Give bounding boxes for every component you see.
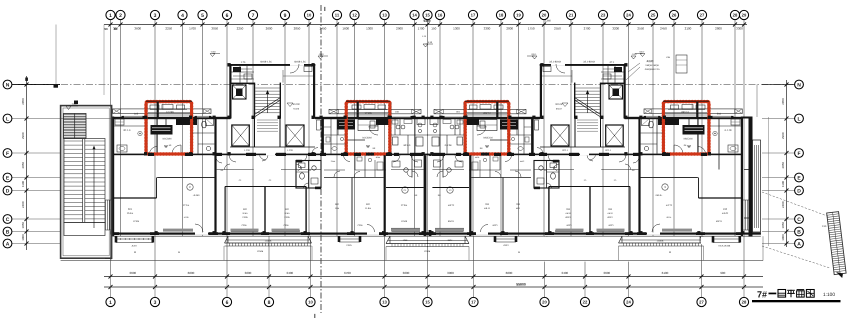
corridor doors (344, 155, 351, 162)
svg-text:R1 1.9: R1 1.9 (124, 129, 131, 132)
svg-text:-0.30: -0.30 (632, 53, 638, 56)
bay inner wall y83 (232, 83, 255, 84)
stair hall door (290, 64, 304, 66)
hall interior lines (282, 70, 284, 83)
corridor arcs extra (216, 157, 222, 163)
svg-text:2700: 2700 (584, 27, 591, 31)
vent shaft east (286, 125, 304, 146)
door arc unit1 hall (150, 147, 158, 155)
porch step lines box1 (148, 112, 190, 114)
svg-text:C: C (6, 217, 10, 223)
bath fixtures (332, 147, 337, 151)
svg-text:高低跨: 高低跨 (647, 60, 655, 63)
svg-text:2450: 2450 (660, 27, 667, 31)
mailbox block unit1 (151, 125, 173, 135)
svg-text:R/2: R/2 (243, 208, 247, 211)
unit1 room divider y125 (114, 125, 146, 127)
right grid bubbles N L F E D C B A (795, 80, 804, 248)
threshold dark block unit1 (176, 119, 197, 125)
top grid bubbles (106, 10, 749, 19)
kitchen bath extra fixtures (393, 137, 399, 145)
svg-text:B: B (797, 229, 801, 235)
fan symbol C (187, 184, 193, 190)
svg-text:17: 17 (471, 13, 476, 18)
unit1 window dim ticks (115, 238, 117, 240)
bath room walls unit1 (197, 118, 199, 154)
right end south wall (743, 233, 761, 235)
svg-text:1300: 1300 (366, 27, 373, 31)
mid room window bars (231, 229, 259, 232)
stair walls extension (254, 119, 256, 148)
svg-text:1700: 1700 (418, 27, 425, 31)
grid row leader lines L-A (11, 119, 795, 244)
svg-text:XM1B-1.5C: XM1B-1.5C (260, 61, 272, 64)
svg-text:29: 29 (742, 13, 747, 18)
living window band y117 mid (391, 117, 411, 119)
svg-text:2250: 2250 (165, 27, 172, 31)
right bay window sill (754, 145, 756, 228)
svg-text:6: 6 (226, 300, 229, 306)
vent shaft west (232, 125, 250, 146)
svg-text:C305: C305 (358, 224, 364, 227)
mid rooms divider x265 (264, 187, 265, 233)
top center level annotation (423, 44, 428, 47)
right margin aux lines (756, 85, 758, 118)
svg-text:JC3A: JC3A (131, 245, 137, 248)
svg-text:+0.050: +0.050 (193, 194, 201, 197)
stair bay east wall (313, 64, 315, 119)
ramp dashed leaders (762, 192, 830, 217)
svg-text:3050: 3050 (211, 27, 218, 31)
mid room left wall x225 (225, 187, 226, 233)
svg-text:2450: 2450 (320, 27, 327, 31)
window unit1 south (115, 236, 117, 242)
shaft wall x322 (321, 118, 324, 156)
mask mirrored right balcony (540, 237, 633, 262)
structural columns (144, 116, 147, 119)
svg-text:N: N (6, 82, 10, 88)
svg-text:6700: 6700 (344, 271, 351, 275)
svg-text:12: 12 (352, 13, 357, 18)
bath cluster walls (330, 118, 332, 154)
living partition y178 (324, 177, 384, 179)
svg-text:3600: 3600 (129, 271, 136, 275)
title underline (752, 300, 841, 302)
svg-text:2050: 2050 (21, 162, 25, 169)
svg-text:3900: 3900 (447, 271, 454, 275)
svg-text:2850: 2850 (21, 98, 25, 105)
entry hall east wall (190, 102, 193, 155)
terrace level mark (66, 106, 71, 110)
svg-text:16: 16 (438, 13, 443, 18)
svg-text:8E 6.0: 8E 6.0 (404, 144, 411, 147)
bay upper closet lines (234, 68, 252, 70)
threshold dark block unit2 (376, 119, 389, 125)
core landing treads (257, 119, 278, 121)
north wall left segment (112, 117, 231, 119)
outdoor stair flights (64, 139, 105, 223)
svg-text:1000: 1000 (781, 234, 785, 241)
right balcony rails (618, 246, 620, 260)
svg-text:55800: 55800 (516, 282, 526, 286)
bottom dimension line with ticks (104, 276, 763, 278)
svg-text:3600: 3600 (603, 271, 610, 275)
svg-text:3300: 3300 (736, 27, 743, 31)
svg-text:2550: 2550 (637, 27, 644, 31)
fixture group bath (117, 145, 127, 152)
entry porch threshold unit1 (146, 100, 192, 102)
svg-text:1300: 1300 (453, 27, 460, 31)
corridor door arcs 2 (225, 164, 231, 170)
red highlight box 2 (346, 102, 390, 154)
corridor row walls (324, 169, 345, 171)
terrace outline (61, 106, 112, 259)
svg-text:R/2: R/2 (285, 208, 289, 211)
bottom dimension numbers (129, 271, 725, 275)
wc cluster under hall (296, 161, 321, 189)
right end outer wall (749, 117, 753, 237)
balcony rail verticals (223, 246, 225, 260)
entry2 east wall (389, 102, 392, 155)
bottom grid bubbles (111, 277, 745, 298)
bottom grid axis extensions (111, 236, 745, 277)
svg-text:JXMQB4B C2A: JXMQB4B C2A (644, 68, 660, 71)
center rooms top wall (386, 187, 424, 189)
south wall (112, 233, 428, 235)
svg-text:3200: 3200 (612, 27, 619, 31)
svg-text:D: D (797, 188, 801, 194)
hall level mark (287, 103, 293, 107)
svg-text:F: F (797, 151, 800, 157)
building right half (mirror copy) (427, 51, 750, 261)
svg-text:15.4m: 15.4m (127, 212, 133, 215)
unit separation wall x215 (214, 117, 216, 233)
svg-text:10: 10 (307, 13, 312, 18)
svg-text:1: 1 (109, 300, 112, 306)
kitchen unit2 counter (358, 120, 378, 131)
svg-text:1100: 1100 (781, 181, 785, 188)
svg-text:17.9m: 17.9m (401, 204, 407, 207)
svg-text:L: L (797, 116, 800, 122)
svg-text:C: C (797, 217, 801, 223)
living wall x425 center (424, 155, 427, 236)
svg-text:27: 27 (700, 13, 705, 18)
svg-text:1C508: 1C508 (401, 220, 408, 223)
svg-text:6: 6 (226, 13, 229, 19)
svg-text:25: 25 (651, 13, 656, 18)
building left half group (mirrored for right half) (106, 51, 429, 261)
porch step lines box2 (348, 112, 389, 114)
mailbox block unit2 (337, 120, 355, 130)
svg-text:1050: 1050 (781, 222, 785, 229)
svg-text:L3B: L3B (666, 56, 670, 59)
svg-text:L: L (6, 116, 9, 122)
upper leader lines (628, 63, 640, 72)
unit1 living window bar (163, 229, 193, 232)
center balcony (389, 236, 391, 243)
svg-text:8: 8 (268, 300, 271, 306)
svg-text:6100: 6100 (662, 271, 669, 275)
svg-text:7#: 7# (757, 290, 767, 300)
svg-text:C025: C025 (346, 244, 352, 247)
unit1 closet (115, 119, 124, 125)
svg-text:28: 28 (742, 300, 747, 305)
corridor doors mid (229, 155, 236, 162)
center unit bath fixtures (411, 155, 413, 177)
svg-text:C305: C305 (284, 224, 290, 227)
svg-text:3: 3 (154, 13, 157, 19)
svg-text:2900: 2900 (21, 132, 25, 139)
svg-text:6000: 6000 (506, 271, 513, 275)
right end partition walls (744, 169, 749, 171)
svg-text:2550: 2550 (554, 27, 561, 31)
svg-text:1C305: 1C305 (133, 220, 140, 223)
svg-text:3400: 3400 (286, 271, 293, 275)
S wall chunks dark (112, 232, 119, 235)
svg-text:1C50B: 1C50B (424, 250, 431, 253)
right end north wall (743, 117, 753, 119)
svg-text:9.3m: 9.3m (243, 212, 248, 215)
right unit balcony (621, 236, 623, 243)
svg-text:9.3m: 9.3m (285, 212, 290, 215)
entry2 west wall (345, 102, 347, 155)
svg-text:3600: 3600 (403, 271, 410, 275)
svg-text:3400: 3400 (561, 271, 568, 275)
window jamb chunks north wall (122, 116, 124, 119)
mid room right wall x306 (305, 187, 306, 233)
kitchen extra unit2 (394, 118, 396, 136)
center room window bar (391, 229, 420, 232)
svg-text:21: 21 (569, 13, 574, 18)
level mark right of bay (318, 56, 323, 59)
south door unit2 (367, 233, 379, 235)
mid room south windows (231, 230, 258, 232)
vertical grid axis lines 1-29 (111, 20, 745, 236)
svg-text:C05: C05 (134, 113, 139, 116)
washbasin circle (138, 131, 142, 135)
svg-text:22: 22 (583, 300, 588, 305)
svg-text:2850: 2850 (781, 98, 785, 105)
svg-text:1340: 1340 (545, 20, 551, 23)
svg-text:C305: C305 (242, 216, 248, 219)
right end window mask and redraw (701, 237, 742, 245)
svg-text:1:100: 1:100 (823, 292, 835, 298)
svg-text:-0.30: -0.30 (211, 51, 217, 54)
svg-text:3600: 3600 (134, 27, 141, 31)
svg-text:F: F (6, 151, 9, 157)
entry2 inner wall y140 (347, 139, 365, 141)
stair west wall (254, 83, 255, 119)
svg-text:1.70: 1.70 (241, 61, 246, 64)
svg-text:2.6m: 2.6m (331, 160, 336, 163)
svg-text:R/1: R/1 (128, 208, 133, 211)
north wall mid segment (315, 117, 428, 119)
svg-text:18: 18 (499, 13, 504, 18)
left grid bubbles N L F E D C B A (3, 80, 12, 248)
bottom overall dimension line (104, 286, 763, 288)
top wall window unit1 a (123, 116, 143, 118)
more F wall chunks (320, 153, 326, 156)
entry hall west wall (145, 102, 147, 155)
svg-text:R/2: R/2 (366, 203, 370, 206)
svg-text:R/2: R/2 (335, 203, 339, 206)
svg-text:13: 13 (382, 13, 387, 18)
svg-text:1.50: 1.50 (822, 225, 827, 228)
svg-text:90: 90 (114, 27, 118, 31)
svg-text:11.9m: 11.9m (365, 207, 371, 210)
mid rooms partition y186.5 (225, 186, 306, 188)
unit1 corridor wall y177.5 (157, 177, 215, 179)
svg-text:28: 28 (733, 13, 738, 18)
svg-text:26: 26 (672, 13, 677, 18)
svg-text:1600: 1600 (342, 27, 349, 31)
top wall window unit1 b (196, 116, 210, 118)
svg-text:-0.020: -0.020 (293, 108, 300, 111)
svg-text:24: 24 (626, 13, 631, 18)
fan symbol C1 (402, 187, 408, 193)
svg-text:15: 15 (425, 13, 430, 18)
stair bay north wall (229, 64, 315, 66)
svg-text:1C50B: 1C50B (257, 250, 264, 253)
svg-text:3: 3 (154, 300, 157, 306)
top dimension line with ticks (104, 24, 747, 26)
svg-text:C: C (189, 186, 191, 189)
svg-text:11: 11 (335, 13, 340, 18)
svg-text:2050: 2050 (781, 162, 785, 169)
svg-text:90: 90 (104, 27, 108, 31)
south window unit2 (338, 236, 340, 242)
svg-text:27: 27 (699, 300, 704, 305)
south door unit1 (195, 233, 208, 235)
svg-text:C305: C305 (284, 216, 290, 219)
stair up arrow (267, 92, 269, 113)
svg-text:M.C02N: M.C02N (163, 138, 172, 141)
bath fixtures unit1 (202, 121, 207, 128)
west outer wall (112, 117, 114, 237)
elevator shaft (233, 85, 247, 99)
svg-text:1700: 1700 (189, 27, 196, 31)
svg-text:A: A (797, 241, 801, 247)
ramp arrow triangle (836, 272, 843, 278)
svg-text:3600: 3600 (245, 271, 252, 275)
site terrace edge line (61, 260, 763, 262)
svg-text:2400: 2400 (781, 201, 785, 208)
stair break line (255, 98, 279, 114)
svg-text:6000: 6000 (188, 271, 195, 275)
svg-text:1C50B: 1C50B (265, 240, 272, 243)
svg-text:5: 5 (201, 13, 204, 19)
svg-text:1-C2D: 1-C2D (244, 149, 251, 152)
left top extension line (55, 25, 57, 86)
planter hatch block (64, 114, 87, 139)
stair arrow (93, 148, 95, 228)
svg-text:20: 20 (542, 300, 547, 305)
svg-text:A: A (6, 241, 10, 247)
red highlight box 1 (146, 102, 192, 154)
living south window unit2 (392, 230, 420, 232)
unit1 partition x166 (165, 118, 167, 129)
kitchen walls unit2 (391, 134, 428, 136)
stair east wall (280, 83, 281, 119)
svg-text:900: 900 (720, 271, 725, 275)
stair treads (255, 87, 279, 89)
svg-text:13: 13 (382, 300, 387, 305)
svg-text:10: 10 (308, 300, 313, 305)
entry2 door arc (369, 126, 378, 135)
level mark near axis 24 (631, 56, 636, 59)
svg-text:1-C2D: 1-C2D (287, 149, 294, 152)
svg-text:2900: 2900 (781, 132, 785, 139)
svg-text:4.9m: 4.9m (376, 156, 381, 159)
svg-text:M: M (134, 251, 136, 254)
under-bay core door (266, 153, 275, 155)
unit1 bedroom wall y198 (112, 197, 157, 199)
right ramp stair detail (827, 212, 846, 275)
svg-text:1C50B: 1C50B (657, 240, 664, 243)
corridor fixtures (357, 157, 362, 161)
center shared wall dedup mask (428, 156, 433, 230)
right end room divider (718, 118, 720, 170)
svg-text:1000: 1000 (21, 234, 25, 241)
grid row N dash-dot line (11, 84, 795, 86)
corridor spine lines (217, 169, 254, 171)
svg-text:-0.30: -0.30 (319, 53, 325, 56)
svg-text:XM1B-1.5C: XM1B-1.5C (294, 61, 306, 64)
stair bay west wall (229, 64, 231, 119)
svg-text:XMQB XMQ8: XMQB XMQ8 (645, 64, 659, 67)
west bay window sill lines (105, 200, 107, 230)
bay closet dark piece (233, 67, 241, 72)
svg-text:M: M (669, 251, 671, 254)
svg-text:2600: 2600 (266, 27, 273, 31)
svg-text:2100: 2100 (685, 27, 692, 31)
svg-text:1K34B: 1K34B (724, 245, 731, 248)
svg-text:B: B (6, 229, 10, 235)
top dimension numbers (104, 27, 743, 31)
svg-text:9: 9 (284, 13, 287, 19)
svg-text:10.000: 10.000 (292, 103, 300, 106)
row F interior bearing wall (112, 154, 428, 156)
entry door arc (172, 145, 181, 154)
living wall x384.5 (384, 155, 386, 236)
unit1 partition x157 (157, 118, 158, 155)
entrance canopy unit 2 (329, 109, 421, 113)
F wall door jambs dark (148, 153, 154, 156)
right vertical dimension line (786, 80, 788, 247)
svg-text:7: 7 (252, 13, 255, 19)
upper duct detail (676, 55, 687, 73)
svg-text:D: D (6, 188, 10, 194)
room west of shaft wall detail (312, 148, 318, 154)
svg-text:150: 150 (431, 27, 436, 31)
section line I-I (dashed) (320, 5, 322, 313)
svg-text:14: 14 (412, 13, 417, 18)
svg-text:M.C02M: M.C02M (362, 137, 371, 140)
svg-text:1100: 1100 (21, 181, 25, 188)
bedroom2 wall x352 (351, 178, 353, 233)
svg-text:23: 23 (601, 13, 606, 18)
svg-text:+0.05: +0.05 (183, 216, 189, 219)
svg-text:1750: 1750 (528, 27, 535, 31)
row N bold leader (11, 84, 60, 86)
axis1 extension line (103, 25, 105, 96)
svg-text:24: 24 (626, 300, 631, 305)
svg-text:2800: 2800 (715, 27, 722, 31)
bay closet row (232, 71, 255, 73)
left vertical dimension line (26, 76, 28, 250)
stair landing bottom (64, 223, 105, 236)
svg-text:2850: 2850 (294, 27, 301, 31)
